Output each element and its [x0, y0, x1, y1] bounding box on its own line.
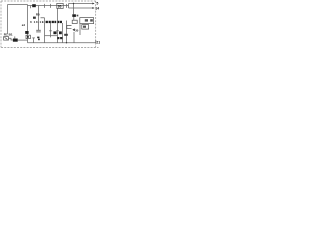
IC U1 top edge — [8, 4, 28, 6]
component box x72 — [72, 20, 77, 23]
resistor R2 body — [13, 39, 18, 42]
wire cross stub x66.5 — [66, 4, 68, 8]
svg-text:21: 21 — [96, 41, 100, 45]
fuse F1 on bus — [32, 4, 36, 7]
dashed boundary right — [95, 1, 97, 47]
svg-text:14: 14 — [95, 6, 99, 10]
wire R2 left lead — [9, 38, 13, 40]
wire mid rail — [45, 35, 58, 37]
IC U1 right edge / drop to bottom rail — [27, 5, 29, 43]
wire drop x80 — [79, 24, 81, 35]
mark inside X2 — [27, 36, 29, 38]
background — [0, 0, 100, 49]
diode D1 box — [4, 37, 9, 41]
arrow pin 5 — [92, 3, 94, 5]
wire drop x73.5 — [73, 4, 75, 15]
wire sensor to box — [73, 17, 75, 20]
wire pin14 out — [69, 7, 93, 9]
cap blob row right — [59, 31, 62, 34]
wire split vertical x68.5 — [68, 4, 70, 9]
junction at 73.5,3.5 — [73, 3, 74, 4]
wire bottom rail — [28, 42, 96, 44]
svg-text:30: 30 — [75, 28, 79, 32]
wire drop x44.5 mid — [44, 18, 46, 43]
wire R2 right lead — [18, 39, 28, 41]
label os small — [64, 34, 68, 36]
wire drop x38.5 cap lead — [38, 6, 40, 31]
IC U1 left edge — [7, 5, 9, 35]
wire drop x50.5 mid — [50, 23, 52, 38]
relay K1 box — [80, 18, 94, 24]
label cluster under mid rail — [57, 37, 59, 39]
arrow pin 14 — [92, 7, 94, 9]
relay K1 lower box — [82, 25, 89, 30]
svg-text:a4: a4 — [22, 23, 26, 27]
svg-text:R1 B1: R1 B1 — [4, 33, 13, 37]
label small under R5 — [33, 17, 36, 19]
svg-text:86: 86 — [58, 5, 62, 9]
wire pin5 out — [69, 3, 93, 5]
svg-text:R5: R5 — [36, 13, 40, 17]
connector bracket — [67, 25, 72, 28]
svg-text:0 10.1E: 0 10.1E — [30, 20, 44, 24]
rail end tick — [95, 40, 97, 42]
wire top bus — [28, 5, 69, 7]
wire drop x33.5 — [33, 38, 35, 43]
dashed boundary left — [0, 1, 2, 47]
diode mark inside D1 — [5, 37, 8, 39]
capacitor C5 tick — [49, 30, 52, 32]
wire cross stub x50.5 — [50, 4, 52, 8]
wire drop x74 lower right — [73, 32, 75, 43]
cap blob row left — [53, 31, 56, 34]
diode triangle right — [72, 28, 74, 31]
wire drop x66.5 lower — [66, 21, 68, 43]
label row B glyphs — [46, 21, 48, 23]
wire jog to x44.5 — [41, 17, 45, 19]
junction at 66.5,42.7 — [66, 42, 67, 43]
mark inside lower relay box — [83, 26, 86, 28]
dashed boundary top — [1, 0, 96, 2]
wire B1 link — [14, 36, 16, 38]
wire drop x57.5 long — [57, 8, 59, 42]
label blob near C1 — [37, 37, 39, 39]
sensor tag — [77, 15, 79, 17]
wire stub x30.5 — [30, 6, 32, 9]
blob on x27 drop — [25, 31, 28, 34]
capacitor C2 plates — [36, 29, 41, 31]
relay text marks — [85, 19, 88, 21]
sensor blob x72 — [72, 14, 76, 17]
tick bar x33.5 — [32, 37, 35, 39]
dashed boundary bottom — [1, 46, 99, 48]
component X2 box — [26, 35, 30, 38]
wire cross stub x44.5 — [44, 4, 46, 8]
svg-text:5: 5 — [96, 2, 98, 6]
capacitor C6 tick — [56, 30, 59, 32]
component box on bus — [57, 3, 63, 8]
wire drop x62.5 — [62, 23, 64, 43]
